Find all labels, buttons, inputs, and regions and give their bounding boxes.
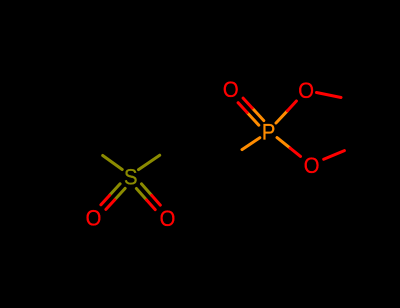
double bond S=O left, inner line: [110, 184, 121, 196]
svg-text:P: P: [262, 121, 275, 145]
wire O-CH3 stub bottom right (oxygen-colored half): [324, 151, 345, 160]
wire O-CH3 stub top right (oxygen-colored half): [317, 93, 342, 98]
bond P-O lower right: [277, 138, 290, 149]
double bond S=O left, outer line: [115, 188, 125, 199]
svg-text:O: O: [86, 207, 102, 231]
wire P-CH2 stub lower left (phosphorus-colored half): [242, 138, 260, 150]
wire S-CH2 stub upper left (sulfur-colored half): [103, 156, 123, 170]
svg-text:O: O: [298, 79, 314, 103]
svg-text:O: O: [160, 207, 176, 231]
svg-text:O: O: [304, 154, 320, 178]
double bond S=O right, outer line: [136, 189, 146, 201]
double bond S=O right, inner line: [142, 184, 152, 196]
svg-text:O: O: [223, 78, 239, 102]
bond P-O upper right: [276, 111, 287, 123]
wire S-CH2 stub upper right (sulfur-colored half): [139, 155, 160, 169]
svg-text:S: S: [124, 166, 137, 190]
double bond P=O, upper line: [252, 108, 264, 121]
double bond P=O, lower line: [247, 113, 259, 126]
